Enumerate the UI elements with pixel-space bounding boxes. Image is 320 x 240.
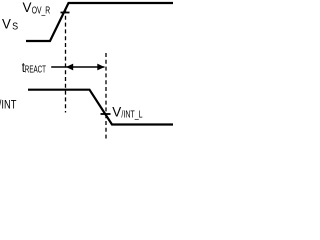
svg-text:OV_R: OV_R xyxy=(32,5,51,16)
svg-text:/INT_L: /INT_L xyxy=(121,109,143,120)
svg-text:REACT: REACT xyxy=(25,64,46,75)
svg-text:/INT: /INT xyxy=(0,99,16,111)
svg-text:V: V xyxy=(23,0,32,15)
svg-text:V: V xyxy=(112,105,121,120)
svg-text:S: S xyxy=(12,22,18,33)
svg-text:V: V xyxy=(2,17,11,32)
